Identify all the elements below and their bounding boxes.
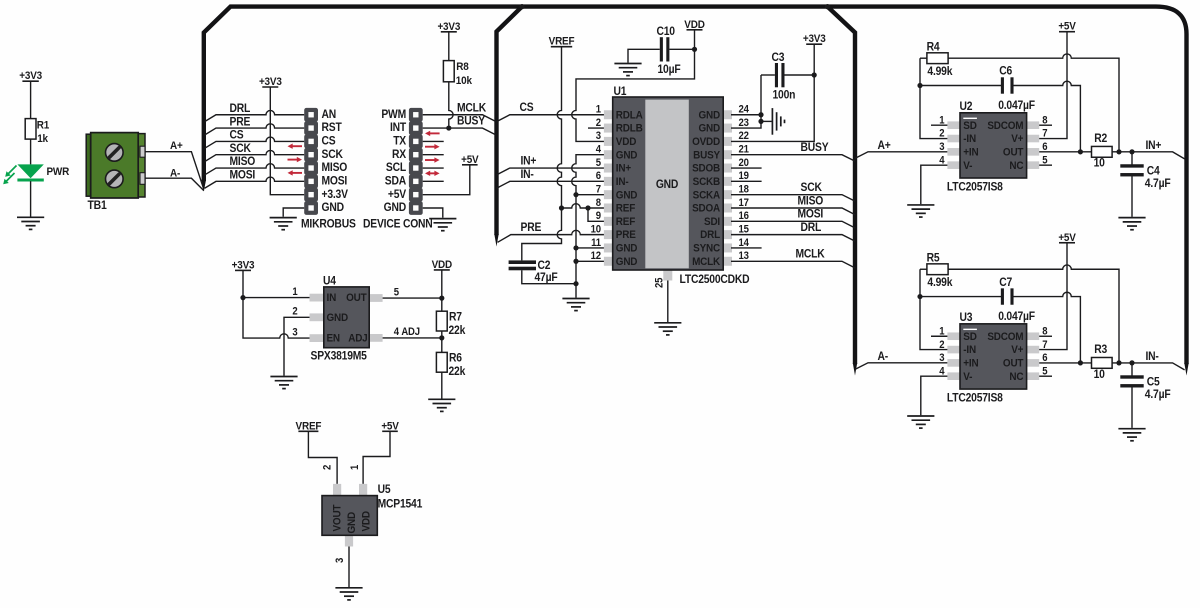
wire mikrobus GND to ground — [283, 208, 304, 217]
svg-text:17: 17 — [739, 197, 750, 209]
svg-text:24: 24 — [739, 104, 750, 116]
svg-text:OVDD: OVDD — [692, 135, 720, 148]
junction dot C7 out — [1078, 360, 1083, 365]
U2 pin names — [963, 118, 1024, 172]
U5 pin names — [331, 504, 373, 533]
svg-text:IN+: IN+ — [616, 162, 631, 175]
bus branch right-mid — [828, 7, 856, 364]
junction dot U4 in — [240, 295, 245, 300]
svg-text:4: 4 — [596, 144, 602, 156]
resistor R6 — [436, 352, 447, 372]
svg-text:SCL: SCL — [386, 162, 406, 175]
svg-text:25: 25 — [654, 277, 666, 288]
junction dot U2 fb — [917, 83, 922, 88]
wire CS (mikrobus) — [205, 137, 305, 148]
wire A+ TB1 to bus — [145, 152, 204, 190]
wire C7 right (jump +5V) — [1012, 292, 1081, 363]
wire R4 right (jump +5V, to output node) — [948, 54, 1119, 152]
junction dot pin12 — [573, 259, 578, 264]
svg-text:INT: INT — [390, 122, 406, 135]
svg-text:V-: V- — [963, 159, 973, 172]
capacitor C5 — [1120, 375, 1143, 378]
svg-text:4 ADJ: 4 ADJ — [394, 327, 420, 339]
wire R4 left — [920, 57, 927, 59]
svg-text:3: 3 — [292, 327, 298, 339]
svg-text:+5V: +5V — [388, 188, 407, 201]
svg-text:19: 19 — [739, 171, 750, 183]
svg-text:RX: RX — [392, 148, 407, 161]
reference U5 MCP1541 — [322, 484, 377, 547]
svg-text:PRE: PRE — [616, 229, 636, 242]
capacitor C7 — [1001, 288, 1004, 304]
svg-text:GND: GND — [616, 189, 638, 202]
wire gnd tap — [761, 120, 772, 122]
svg-text:1k: 1k — [37, 132, 48, 145]
junction dot U3 fb — [917, 294, 922, 299]
svg-text:BUSY: BUSY — [693, 149, 720, 162]
svg-text:4.99k: 4.99k — [927, 65, 953, 78]
wire A- TB1 to bus — [145, 178, 204, 190]
arrow SDA — [425, 171, 440, 176]
svg-text:RDLA: RDLA — [616, 109, 643, 122]
svg-text:MISO: MISO — [322, 162, 348, 175]
wire R7 to ADJ node — [383, 331, 442, 352]
wire U2 OUT — [1039, 151, 1091, 153]
regulator U4 SPX3819M5 — [310, 287, 383, 348]
wire U5 pin3 to ground — [348, 547, 350, 588]
junction dot R8/BUSY — [446, 125, 451, 130]
svg-text:10: 10 — [1094, 157, 1105, 170]
wire MCLK pin13 to bus — [731, 261, 855, 268]
svg-text:A-: A- — [878, 350, 889, 363]
svg-text:IN-: IN- — [616, 175, 629, 188]
wire pin8 REF (jumps GND line) — [562, 204, 606, 208]
stub U3 NC — [1039, 375, 1052, 377]
wire C7 left — [920, 296, 1003, 298]
capacitor C10 — [660, 37, 663, 61]
resistor R7 — [436, 311, 447, 331]
svg-text:REF: REF — [616, 202, 636, 215]
svg-text:23: 23 — [739, 117, 750, 129]
svg-text:6: 6 — [596, 171, 602, 183]
IC U1 LTC2500CDKD body — [604, 97, 732, 281]
svg-text:18: 18 — [739, 184, 750, 196]
svg-text:DRL: DRL — [801, 222, 822, 235]
wire +3V3 to pin22 OVDD — [731, 44, 814, 141]
wire U2 V- to ground — [921, 165, 948, 204]
svg-text:R3: R3 — [1094, 344, 1107, 357]
ground (U2 V-) — [907, 205, 934, 217]
svg-text:GND: GND — [616, 242, 638, 255]
svg-text:12: 12 — [591, 251, 602, 263]
svg-text:SDI: SDI — [704, 215, 720, 228]
wire C6 left — [920, 85, 1003, 87]
svg-text:5: 5 — [596, 157, 602, 169]
svg-text:C5: C5 — [1147, 376, 1160, 389]
svg-text:VDD: VDD — [360, 511, 373, 532]
svg-text:PRE: PRE — [230, 116, 251, 129]
U1 pin names left — [616, 109, 643, 268]
bus junction dot B — [825, 4, 830, 9]
svg-text:V+: V+ — [1011, 133, 1023, 146]
svg-text:GND: GND — [616, 255, 638, 268]
ground (U4) — [270, 377, 297, 389]
svg-text:SDCOM: SDCOM — [987, 119, 1023, 132]
ground (U1 pin25) — [654, 323, 681, 335]
op-amp U2 body — [947, 113, 1039, 178]
svg-text:C3: C3 — [772, 52, 785, 65]
svg-text:10: 10 — [591, 224, 602, 236]
svg-text:NC: NC — [1009, 159, 1023, 172]
stub U2 SDCOM — [1039, 124, 1052, 126]
resistor R1 — [25, 119, 36, 140]
svg-text:U3: U3 — [960, 311, 973, 324]
wire VREF to U5 pin2 — [308, 431, 337, 484]
svg-text:A-: A- — [170, 167, 181, 180]
svg-text:10k: 10k — [456, 75, 472, 88]
svg-text:9: 9 — [596, 211, 602, 223]
svg-text:GND: GND — [384, 202, 407, 215]
wire R8 to BUSY (jump MCLK) — [449, 82, 453, 128]
svg-text:3: 3 — [939, 353, 945, 365]
GND line x576 (pin4 down to ground, jumps IN+, IN-) — [572, 155, 605, 298]
ground (U3 V-) — [907, 416, 934, 428]
wire pin23 GND + C3 drop — [731, 75, 761, 128]
wire MCLK (PWM pin to bus) — [423, 115, 496, 122]
svg-text:U4: U4 — [323, 275, 337, 288]
svg-text:14: 14 — [739, 237, 750, 249]
svg-text:RDLB: RDLB — [616, 122, 643, 135]
junction dot VREF/pin8 — [559, 205, 564, 210]
LED PWR — [17, 164, 43, 178]
U4 pin numbers — [292, 286, 419, 338]
wire pin25 to ground — [667, 281, 669, 323]
svg-text:MOSI: MOSI — [230, 169, 256, 182]
junction dot U4 out — [439, 296, 444, 301]
svg-text:20: 20 — [739, 157, 750, 169]
svg-text:GND: GND — [699, 109, 721, 122]
svg-text:GND: GND — [327, 312, 349, 325]
wire A+ (bus to U2 +IN) — [855, 152, 947, 159]
svg-text:R1: R1 — [37, 119, 50, 132]
svg-text:47µF: 47µF — [535, 272, 558, 285]
svg-text:A+: A+ — [878, 139, 891, 152]
resistor R2 10 — [1092, 146, 1113, 157]
svg-text:SCKB: SCKB — [693, 175, 721, 188]
svg-text:REF: REF — [616, 215, 636, 228]
stub pin19 SCKB — [731, 180, 762, 182]
ground (mikrobus) — [270, 218, 297, 230]
capacitor C6 — [1001, 77, 1004, 93]
svg-text:R4: R4 — [927, 41, 941, 54]
svg-text:C10: C10 — [657, 26, 675, 39]
svg-text:PWR: PWR — [47, 165, 70, 178]
wire MISO (mikrobus) — [205, 164, 305, 175]
wire VREF vertical (jumps CS, IN+, IN-, PRE; to C2) — [522, 47, 562, 261]
svg-text:MOSI: MOSI — [322, 175, 348, 188]
resistor R8 — [443, 61, 454, 82]
ground (R6) — [428, 399, 455, 411]
arrow MOSI in — [288, 170, 303, 175]
svg-text:10µF: 10µF — [658, 63, 681, 76]
wire SCK pin18 to bus — [731, 195, 855, 202]
svg-text:GND: GND — [345, 512, 358, 534]
svg-text:CS: CS — [520, 102, 534, 115]
svg-text:22k: 22k — [449, 366, 467, 379]
resistor R4 4.99k — [927, 53, 948, 64]
svg-text:10: 10 — [1094, 368, 1105, 381]
svg-text:MCLK: MCLK — [457, 102, 486, 115]
wire U3 V- to ground — [921, 376, 948, 415]
svg-text:15: 15 — [739, 224, 750, 236]
VDD line to pin 3 (jumps CS) — [572, 49, 695, 141]
stub pin2 RDLB — [588, 127, 605, 129]
capacitor C2 — [509, 260, 536, 264]
svg-text:0.047µF: 0.047µF — [998, 99, 1035, 112]
wire R3 to bus (U3) — [1112, 363, 1185, 370]
wire C10 left to ground — [628, 49, 660, 62]
svg-text:5: 5 — [394, 287, 400, 299]
U4 pin names — [327, 292, 368, 345]
arrow SCK in — [288, 144, 303, 149]
svg-text:EN: EN — [327, 332, 340, 345]
wire +3V3 flag to IN — [243, 270, 310, 297]
junction dot VDD/C10 — [692, 47, 697, 52]
junction dot R2/cap — [1129, 149, 1134, 154]
junction dot pin11 — [573, 245, 578, 250]
svg-text:OUT: OUT — [1003, 146, 1024, 159]
wire VDD to OUT and R7 — [383, 270, 442, 311]
capacitor C4 — [1120, 164, 1143, 167]
svg-text:SCK: SCK — [801, 182, 822, 195]
svg-text:C7: C7 — [999, 276, 1012, 289]
svg-text:+3.3V: +3.3V — [322, 188, 349, 201]
svg-text:SPX3819M5: SPX3819M5 — [311, 350, 367, 363]
svg-text:3: 3 — [596, 131, 602, 143]
wire SCK (mikrobus) — [205, 150, 305, 161]
svg-text:-IN: -IN — [963, 133, 976, 146]
svg-text:SYNC: SYNC — [693, 242, 720, 255]
svg-text:+IN: +IN — [963, 146, 978, 159]
wire +3V3 to R8 — [448, 32, 450, 61]
junction dot pin8 jog — [585, 205, 590, 210]
wire MOSI pin16 to bus — [731, 221, 855, 228]
stub wire TX — [423, 140, 444, 142]
bus taper left — [202, 180, 206, 192]
svg-text:8: 8 — [596, 197, 602, 209]
wire C4 to ground — [1131, 152, 1133, 217]
svg-text:+IN: +IN — [963, 357, 978, 370]
svg-text:CS: CS — [230, 129, 244, 142]
svg-text:SDOA: SDOA — [692, 202, 720, 215]
svg-text:ADJ: ADJ — [348, 332, 368, 345]
svg-text:1: 1 — [292, 286, 298, 298]
svg-text:1: 1 — [349, 464, 361, 470]
op-amp U3 body — [947, 324, 1039, 389]
wire U3 OUT — [1039, 362, 1091, 364]
U1 pin names right — [692, 109, 721, 268]
junction dot R5 out — [1116, 360, 1121, 365]
svg-text:V+: V+ — [1011, 344, 1023, 357]
svg-text:IN-: IN- — [521, 168, 535, 181]
svg-text:SDA: SDA — [385, 175, 406, 188]
wire BUSY pin21 to bus — [731, 155, 855, 162]
svg-text:3: 3 — [335, 557, 347, 563]
svg-text:22k: 22k — [449, 324, 467, 337]
ground (U5) — [335, 588, 362, 600]
svg-text:RST: RST — [322, 122, 342, 135]
junction dot pin7 — [573, 192, 578, 197]
wire pin24 GND — [731, 114, 761, 116]
bus taper right — [1184, 363, 1188, 376]
svg-text:IN: IN — [327, 292, 337, 305]
svg-text:C2: C2 — [538, 259, 551, 272]
wire +5V to U3 V+ — [1039, 243, 1067, 350]
wire R6 to ground — [441, 372, 443, 398]
ground rotated (pins 23/24) — [772, 108, 784, 135]
wire LED to ground — [30, 181, 32, 216]
wire +3V3 to pin +3.3V — [270, 87, 304, 195]
svg-text:100n: 100n — [773, 89, 796, 102]
svg-text:R8: R8 — [456, 61, 469, 74]
svg-text:GND: GND — [699, 122, 721, 135]
stub pin20 SDOB — [731, 167, 762, 169]
svg-text:2: 2 — [292, 306, 298, 318]
capacitor C3 — [775, 63, 778, 87]
terminal block TB1 — [86, 133, 145, 198]
svg-text:CS: CS — [322, 135, 336, 148]
wire +5V flag to pin — [423, 165, 470, 195]
svg-text:OUT: OUT — [346, 292, 367, 305]
U3 pin numbers — [939, 326, 1048, 378]
svg-text:SD: SD — [963, 330, 977, 343]
junction dot C2/GND — [573, 281, 578, 286]
junction dot R3/cap — [1129, 360, 1134, 365]
svg-text:GND: GND — [656, 178, 679, 191]
svg-text:IN+: IN+ — [521, 155, 537, 168]
stub U3 SDCOM — [1039, 335, 1052, 337]
wire C3 right to +3V3 — [785, 74, 815, 76]
bus junction dot A — [519, 4, 524, 9]
svg-text:U1: U1 — [614, 85, 627, 98]
svg-text:U2: U2 — [960, 100, 973, 113]
stub wire RX — [423, 154, 444, 156]
wire IN+ (bus to pin 5) — [497, 168, 605, 175]
U1 pin numbers left — [591, 104, 602, 262]
wire C5 to ground — [1131, 363, 1133, 428]
arrow MISO out — [288, 157, 303, 162]
svg-text:AN: AN — [322, 108, 337, 121]
svg-text:SD: SD — [963, 119, 977, 132]
svg-text:SDOB: SDOB — [692, 162, 720, 175]
U3 pin names — [963, 329, 1024, 383]
svg-text:GND: GND — [322, 202, 345, 215]
wire C3 left — [761, 74, 775, 76]
arrow TX — [425, 131, 440, 136]
wire +3V3 to EN (jump GND drop) — [243, 298, 310, 339]
wire VDD flag stub — [694, 30, 696, 50]
wire CS (bus to pin 1) — [497, 115, 605, 122]
svg-text:MCP1541: MCP1541 — [378, 498, 423, 511]
svg-text:OUT: OUT — [1003, 357, 1024, 370]
junction dot C3/+3V3 — [812, 72, 817, 77]
wire pin9 REF — [588, 208, 605, 221]
wire U2 -IN to feedback node — [920, 58, 947, 138]
svg-text:MCLK: MCLK — [692, 255, 720, 268]
svg-text:MCLK: MCLK — [796, 248, 825, 261]
svg-text:PWM: PWM — [381, 108, 406, 121]
svg-text:VDD: VDD — [616, 135, 637, 148]
junction dot gnd tap — [758, 119, 763, 124]
ground (C10) — [614, 64, 641, 76]
stub U2 NC — [1039, 164, 1052, 166]
bus taper right-mid — [853, 363, 857, 376]
wire C6 right (jump +5V) — [1012, 81, 1081, 152]
svg-text:SCKA: SCKA — [693, 189, 721, 202]
svg-text:MOSI: MOSI — [798, 208, 824, 221]
wire MOSI (mikrobus) — [205, 177, 305, 188]
stub wire SDA — [423, 180, 444, 182]
wire pin11 GND — [576, 247, 605, 249]
junction dot R4 out — [1116, 149, 1121, 154]
wire +3V3 to R1 — [30, 81, 32, 118]
svg-text:BUSY: BUSY — [801, 142, 830, 155]
svg-text:U5: U5 — [378, 483, 391, 496]
svg-text:LTC2057IS8: LTC2057IS8 — [947, 392, 1003, 405]
arrow SCL — [425, 157, 440, 162]
wire R1 to LED — [30, 139, 32, 164]
svg-text:C4: C4 — [1147, 165, 1161, 178]
wire U3 -IN to feedback node — [920, 269, 947, 349]
svg-text:SDCOM: SDCOM — [987, 330, 1023, 343]
wire BUSY (INT pin to bus) — [423, 128, 496, 135]
svg-text:4.99k: 4.99k — [927, 276, 953, 289]
svg-text:IN-: IN- — [1146, 350, 1160, 363]
wire DRL (mikrobus) — [205, 110, 305, 121]
svg-text:R2: R2 — [1094, 132, 1107, 145]
bus taper middle — [494, 234, 498, 247]
wire +5V to U5 pin1 — [363, 431, 390, 484]
ground (C5) — [1118, 429, 1145, 441]
wire PRE (bus to pin 10, jump GND line) — [498, 230, 605, 242]
svg-text:11: 11 — [591, 237, 601, 249]
svg-text:16: 16 — [739, 211, 750, 223]
svg-text:DEVICE CONN: DEVICE CONN — [363, 218, 433, 231]
wire C10 right to VDD — [669, 48, 694, 50]
svg-text:2: 2 — [322, 464, 334, 470]
wire U4 GND to ground — [284, 317, 310, 375]
wire device GND to ground — [423, 208, 443, 218]
wire R5 right (jump +5V, to output node) — [948, 265, 1119, 363]
svg-text:-IN: -IN — [963, 344, 976, 357]
svg-text:0.047µF: 0.047µF — [998, 310, 1035, 323]
svg-text:SCK: SCK — [230, 142, 251, 155]
bus branch middle — [497, 7, 523, 235]
svg-text:3: 3 — [939, 142, 945, 154]
svg-text:2: 2 — [596, 117, 602, 129]
junction dot C6 out — [1078, 149, 1083, 154]
svg-text:4.7µF: 4.7µF — [1145, 177, 1171, 190]
svg-text:GND: GND — [616, 149, 638, 162]
svg-text:21: 21 — [739, 144, 750, 156]
wire DRL pin15 to bus — [731, 235, 855, 242]
wire PRE (mikrobus) — [205, 124, 305, 135]
header MIKROBUS — [304, 108, 318, 215]
svg-text:DRL: DRL — [230, 102, 251, 115]
device conn pin labels — [381, 108, 406, 214]
ground (C4) — [1118, 218, 1145, 230]
header DEVICE CONN — [409, 108, 423, 215]
